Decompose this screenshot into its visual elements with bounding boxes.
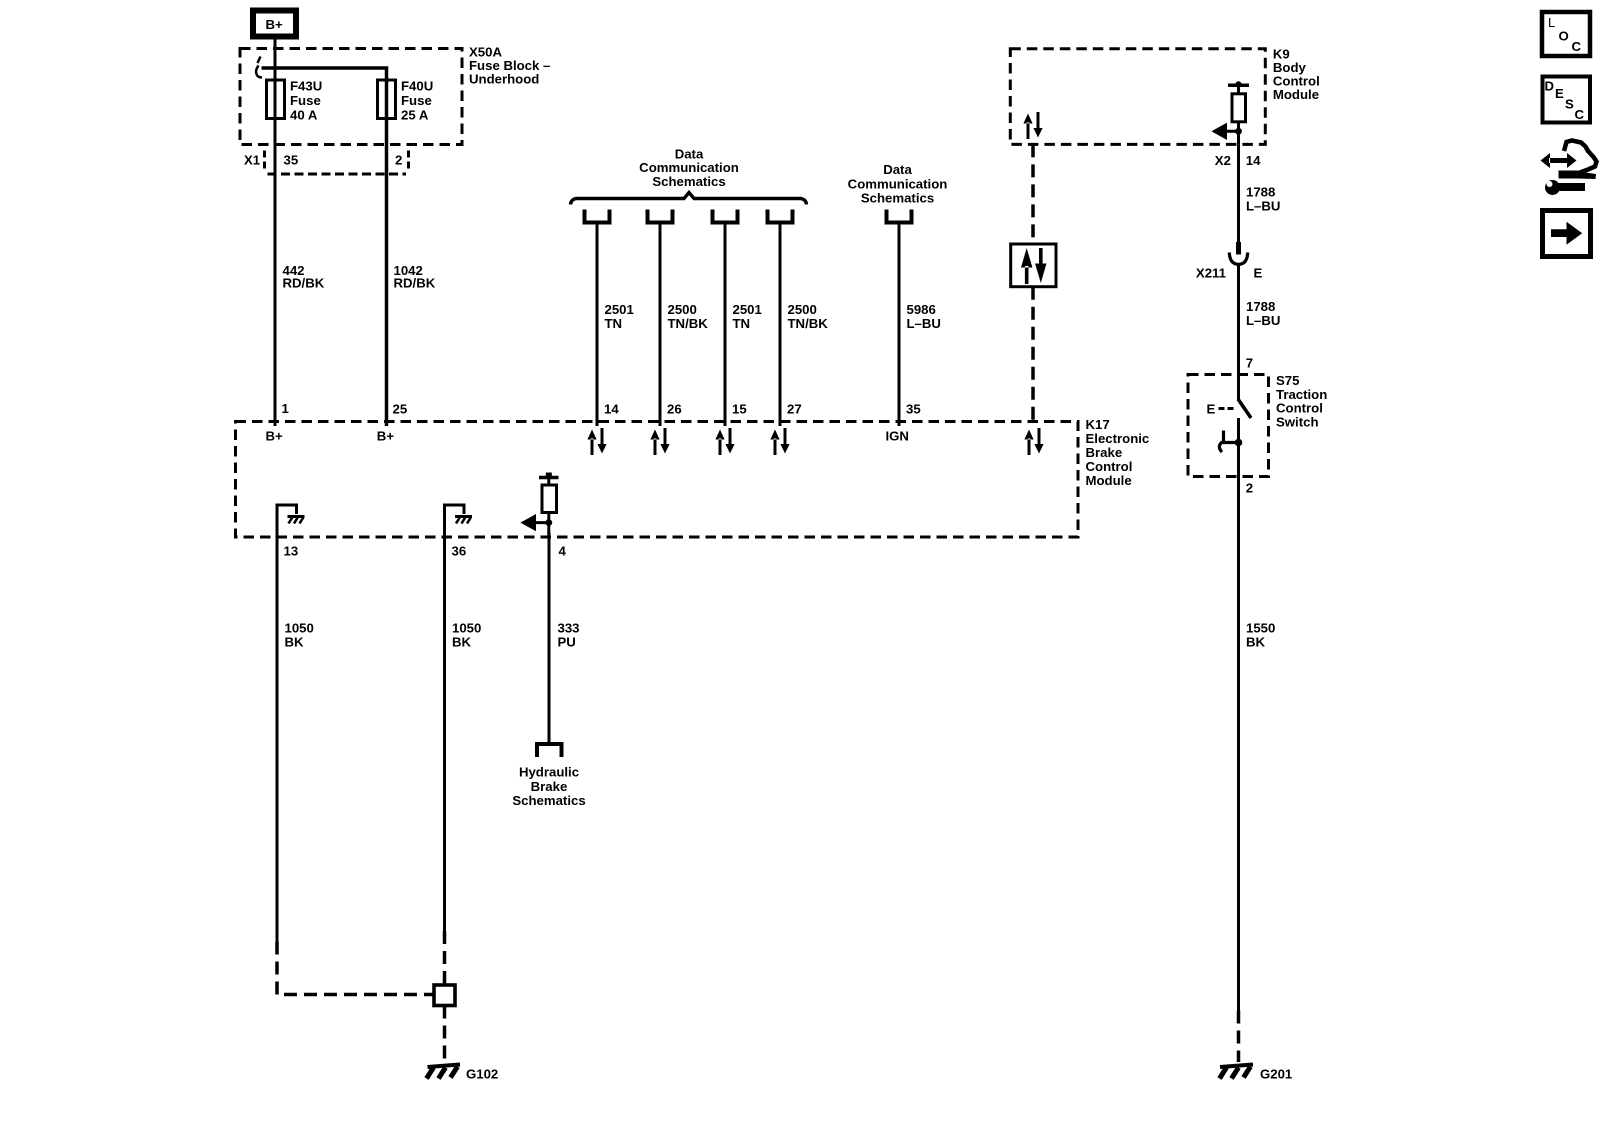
svg-text:Module: Module xyxy=(1086,473,1132,488)
svg-text:BK: BK xyxy=(452,635,472,650)
svg-text:5986: 5986 xyxy=(907,302,936,317)
wire 1788 L-BU from K9 xyxy=(1237,144,1240,243)
svg-text:Schematics: Schematics xyxy=(512,793,585,808)
off-page connector to data comm (wire 5986 pin 35) xyxy=(887,210,912,223)
svg-text:E: E xyxy=(1254,266,1263,281)
svg-text:X2: X2 xyxy=(1215,153,1231,168)
svg-text:2501: 2501 xyxy=(605,302,634,317)
ground G201 xyxy=(1220,1065,1293,1082)
svg-text:Schematics: Schematics xyxy=(652,174,725,189)
ground G102 xyxy=(427,1065,499,1082)
svg-text:1550: 1550 xyxy=(1246,621,1275,636)
svg-text:2500: 2500 xyxy=(788,302,817,317)
svg-text:1050: 1050 xyxy=(285,621,314,636)
wire 2501 TN to pin 15 xyxy=(724,223,727,427)
svg-text:40 A: 40 A xyxy=(290,108,318,123)
svg-text:BK: BK xyxy=(1246,635,1266,650)
heading Data Communication Schematics (left) xyxy=(639,147,739,190)
fuse block X50A dashed box xyxy=(240,49,462,145)
svg-text:Brake: Brake xyxy=(1086,445,1123,460)
label 1050 BK (pin 36) xyxy=(452,621,481,650)
B+ battery feed box xyxy=(253,11,296,37)
label 2501 TN (second) xyxy=(733,302,762,331)
label 1788 L-BU (upper) xyxy=(1246,185,1280,214)
svg-text:Control: Control xyxy=(1276,401,1323,416)
sidebar icon DESC xyxy=(1543,77,1591,123)
svg-text:1050: 1050 xyxy=(452,621,481,636)
label X50A Fuse Block Underhood xyxy=(469,45,550,87)
svg-text:G201: G201 xyxy=(1260,1067,1292,1082)
boxed data arrows symbol xyxy=(1011,244,1056,287)
dashed data link arrows box to K17 xyxy=(1031,287,1035,422)
dashed wire to G102 xyxy=(443,1006,447,1063)
svg-text:E: E xyxy=(1207,402,1216,417)
svg-text:B+: B+ xyxy=(377,429,395,444)
svg-text:G102: G102 xyxy=(466,1067,498,1082)
svg-text:RD/BK: RD/BK xyxy=(394,276,436,291)
internal ground pin 13 xyxy=(276,505,305,537)
svg-text:C: C xyxy=(1572,39,1582,54)
svg-text:14: 14 xyxy=(604,402,619,417)
svg-text:RD/BK: RD/BK xyxy=(283,276,325,291)
svg-text:B+: B+ xyxy=(266,17,284,32)
fuse F43U 40A xyxy=(267,79,323,123)
wire from S75 to pin 2 xyxy=(1237,418,1240,1011)
svg-text:X211: X211 xyxy=(1196,266,1226,281)
svg-text:26: 26 xyxy=(667,402,682,417)
svg-text:7: 7 xyxy=(1246,356,1253,371)
heading Data Communication Schematics (right) xyxy=(848,162,948,206)
data arrows pin 14 xyxy=(587,428,606,455)
svg-text:L–BU: L–BU xyxy=(907,316,941,331)
svg-text:1: 1 xyxy=(282,401,289,416)
svg-text:15: 15 xyxy=(732,402,747,417)
off-page connector to data comm (wire 2501 pin 15) xyxy=(713,210,738,223)
svg-text:2501: 2501 xyxy=(733,302,762,317)
wire from B+ to fuse F43U (442 feed) xyxy=(274,40,277,427)
label 2500 TN/BK (second) xyxy=(788,302,829,331)
off-page connector to data comm (wire 2500 pin 27) xyxy=(768,210,793,223)
wire 2501 TN to pin 14 xyxy=(596,223,599,427)
svg-text:K17: K17 xyxy=(1086,417,1110,432)
svg-text:Fuse: Fuse xyxy=(290,93,321,108)
wire 442 RD/BK label xyxy=(283,263,325,291)
label 333 PU xyxy=(558,621,580,650)
svg-text:2: 2 xyxy=(1246,481,1253,496)
svg-text:35: 35 xyxy=(906,402,921,417)
internal driver resistor in K9 xyxy=(1215,81,1250,144)
svg-text:BK: BK xyxy=(285,635,305,650)
svg-text:35: 35 xyxy=(284,153,299,168)
switch S75 dashed box xyxy=(1188,375,1269,477)
svg-text:S75: S75 xyxy=(1276,373,1299,388)
svg-text:Data: Data xyxy=(883,162,912,177)
wire branch to fuse F40U xyxy=(262,68,387,426)
svg-text:L–BU: L–BU xyxy=(1246,313,1280,328)
label K9 Body Control Module xyxy=(1273,47,1320,103)
splice junction box xyxy=(434,985,455,1006)
module K9 dashed box xyxy=(1010,49,1265,145)
label S75 Traction Control Switch xyxy=(1276,373,1327,429)
svg-text:TN: TN xyxy=(733,316,751,331)
svg-text:L–BU: L–BU xyxy=(1246,199,1280,214)
svg-text:2500: 2500 xyxy=(668,302,697,317)
svg-text:Module: Module xyxy=(1273,87,1319,102)
module K17 dashed box xyxy=(236,422,1079,538)
svg-text:Schematics: Schematics xyxy=(861,191,934,206)
dashed ground run from pin 36 xyxy=(443,931,447,985)
label 5986 L-BU xyxy=(907,302,941,331)
svg-text:Underhood: Underhood xyxy=(469,72,539,87)
svg-text:13: 13 xyxy=(284,544,299,559)
sidebar icon fault-repair (arrows and wrench) xyxy=(1541,141,1597,196)
svg-text:Traction: Traction xyxy=(1276,387,1327,402)
off-page connector to data comm (wire 2500 pin 26) xyxy=(648,210,673,223)
svg-text:2: 2 xyxy=(395,153,402,168)
wire 2500 TN/BK to pin 27 xyxy=(779,223,782,427)
svg-text:TN/BK: TN/BK xyxy=(668,316,709,331)
dashed ground run from pin 13 xyxy=(277,942,434,995)
connector X1 of fuse block xyxy=(244,151,409,175)
data arrows serial link xyxy=(1024,428,1043,455)
off-page connector to data comm (wire 2501 pin 14) xyxy=(585,210,610,223)
data arrows pin 27 xyxy=(770,428,789,455)
internal ground pin 36 xyxy=(443,505,472,537)
svg-text:F43U: F43U xyxy=(290,79,322,94)
svg-text:O: O xyxy=(1559,29,1569,44)
svg-text:1788: 1788 xyxy=(1246,299,1275,314)
svg-text:D: D xyxy=(1545,79,1555,94)
svg-text:TN/BK: TN/BK xyxy=(788,316,829,331)
label 1550 BK xyxy=(1246,621,1275,650)
svg-text:Communication: Communication xyxy=(848,176,948,191)
wire 1050 BK from pin 13 xyxy=(276,533,279,942)
svg-text:14: 14 xyxy=(1246,153,1261,168)
sidebar icon LOC xyxy=(1542,12,1590,56)
svg-text:1788: 1788 xyxy=(1246,185,1275,200)
off-page connector hydraulic brake xyxy=(537,744,562,757)
svg-text:4: 4 xyxy=(559,544,567,559)
data arrows pin 26 xyxy=(650,428,669,455)
label 1788 L-BU (lower) xyxy=(1246,299,1280,328)
label Hydraulic Brake Schematics xyxy=(512,765,585,809)
brace over data communication wires xyxy=(571,193,807,205)
svg-text:L: L xyxy=(1548,15,1555,30)
svg-text:25 A: 25 A xyxy=(401,108,429,123)
svg-text:S: S xyxy=(1565,97,1574,112)
wire 1788 L-BU to S75 xyxy=(1237,264,1240,374)
svg-text:F40U: F40U xyxy=(401,79,433,94)
wire 333 PU from pin 4 xyxy=(548,533,551,743)
wire 5986 L-BU to pin 35 xyxy=(898,223,901,427)
svg-text:Electronic: Electronic xyxy=(1086,431,1150,446)
label 1050 BK (pin 13) xyxy=(285,621,314,650)
svg-text:25: 25 xyxy=(393,402,408,417)
svg-text:Control: Control xyxy=(1086,459,1133,474)
switch contacts inside S75 xyxy=(1207,375,1252,453)
wire 1042 RD/BK label xyxy=(394,263,436,291)
wire 1050 BK from pin 36 xyxy=(443,533,446,932)
dashed data link K9 to arrows box xyxy=(1031,144,1035,244)
svg-text:TN: TN xyxy=(605,316,623,331)
svg-text:Fuse: Fuse xyxy=(401,93,432,108)
svg-text:333: 333 xyxy=(558,621,580,636)
wire 2500 TN/BK to pin 26 xyxy=(659,223,662,427)
svg-text:PU: PU xyxy=(558,635,576,650)
svg-text:Communication: Communication xyxy=(639,160,739,175)
label K17 Electronic Brake Control Module xyxy=(1086,417,1150,488)
svg-text:E: E xyxy=(1555,86,1564,101)
svg-text:Brake: Brake xyxy=(531,779,568,794)
sidebar icon forward arrow xyxy=(1543,211,1591,257)
svg-text:27: 27 xyxy=(787,402,802,417)
splice hook at B+ feed xyxy=(256,57,262,78)
in-line connector X211 terminal E xyxy=(1196,242,1263,281)
svg-text:C: C xyxy=(1575,107,1585,122)
internal driver resistor pin 4 xyxy=(524,473,559,538)
svg-text:IGN: IGN xyxy=(886,429,909,444)
svg-text:X1: X1 xyxy=(244,153,260,168)
svg-text:Switch: Switch xyxy=(1276,414,1319,429)
data arrows inside K9 xyxy=(1023,112,1042,139)
label 2501 TN xyxy=(605,302,634,331)
dashed wire to G201 xyxy=(1237,1011,1241,1063)
svg-text:36: 36 xyxy=(452,544,467,559)
data arrows pin 15 xyxy=(715,428,734,455)
svg-text:B+: B+ xyxy=(266,429,284,444)
svg-text:Hydraulic: Hydraulic xyxy=(519,765,579,780)
fuse F40U 25A xyxy=(378,79,434,123)
label 2500 TN/BK xyxy=(668,302,709,331)
